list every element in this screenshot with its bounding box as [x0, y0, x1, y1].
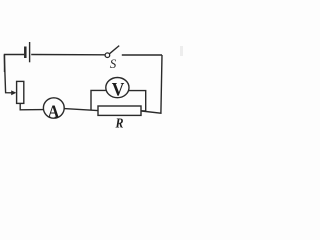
svg-text:R: R — [115, 116, 124, 131]
switch S: open lever arm — [109, 46, 119, 54]
battery cell: short thick plate (negative) — [24, 47, 27, 59]
resistor R body — [98, 106, 141, 115]
wire: resistor R right lead — [141, 110, 146, 112]
wire: battery to switch — [31, 54, 105, 56]
wire: rheostat bottom terminal to ammeter — [20, 104, 43, 110]
svg-text:S: S — [110, 56, 117, 71]
rheostat body (variable resistor box) — [17, 81, 24, 103]
rheostat wiper arrowhead — [11, 90, 16, 95]
wire: switch to top-right corner — [122, 54, 162, 56]
wire: ammeter to resistor R — [64, 109, 98, 111]
ammeter A: meter circle — [43, 98, 64, 118]
node: voltmeter branch left junction — [91, 90, 106, 110]
voltmeter V: meter circle — [106, 78, 129, 98]
svg-text:A: A — [48, 102, 60, 122]
wire: voltmeter to right branch vertical — [129, 91, 146, 112]
svg-text:V: V — [112, 79, 125, 100]
wire: top-left corner to battery — [5, 55, 25, 73]
wire: left vertical side with wiper lead — [4, 55, 14, 93]
battery cell: long thin plate (positive) — [29, 42, 31, 62]
faint scan artifact right edge — [180, 46, 183, 56]
wire: right vertical side — [142, 55, 163, 113]
switch S: pivot circle — [105, 53, 110, 58]
